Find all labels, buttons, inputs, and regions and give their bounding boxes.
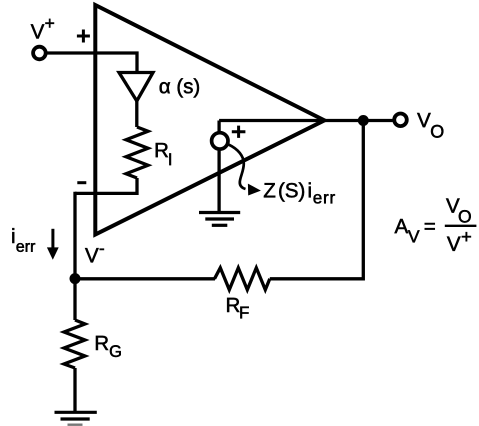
op-amp U1 bbox=[95, 5, 324, 235]
wire: current source top lead bbox=[217, 121, 220, 134]
minus marker (inverting input) bbox=[77, 181, 86, 184]
label i_err bbox=[12, 228, 14, 243]
plus marker (noninverting input) bbox=[77, 30, 90, 43]
buffer amp a(s) bbox=[119, 73, 153, 102]
output node junction dot bbox=[358, 115, 369, 126]
resistor R_G bbox=[64, 320, 85, 368]
resistor R_F bbox=[215, 268, 270, 290]
label V- bbox=[85, 248, 98, 262]
output terminal V_O bbox=[394, 114, 407, 127]
label Z(S) i_err bbox=[264, 183, 275, 197]
label R_G bbox=[96, 336, 108, 350]
wire: R_G bottom lead bbox=[73, 368, 76, 412]
label R_F bbox=[227, 298, 239, 312]
formula A_V = V_O / V+ bbox=[395, 219, 409, 233]
wire: left vertical down to node V- bbox=[73, 192, 76, 279]
current source Z(S)i_err bbox=[212, 133, 228, 149]
input terminal V+ bbox=[33, 47, 46, 60]
label alpha(s) bbox=[160, 78, 199, 97]
wire: R_F to output node bbox=[270, 121, 364, 279]
wire: R_G top lead bbox=[73, 279, 76, 320]
node V- junction dot bbox=[70, 273, 81, 284]
wire: buffer to R_I bbox=[135, 99, 138, 127]
wire: current source bottom lead bbox=[217, 149, 220, 211]
plus marker (current source) bbox=[232, 126, 246, 138]
wire: R_I bottom to inverting input bbox=[75, 178, 137, 193]
arrow i_err bbox=[51, 229, 54, 249]
label V+ bbox=[31, 24, 44, 38]
label R_I bbox=[156, 143, 168, 157]
ground (bottom) bbox=[55, 411, 97, 414]
wire: V+ input to buffer bbox=[45, 53, 137, 73]
resistor R_I bbox=[126, 127, 148, 178]
curved arrow to Z(S)i_err label bbox=[229, 145, 246, 190]
label V_O bbox=[417, 113, 430, 127]
wire: node V- to R_F bbox=[75, 277, 215, 280]
ground (current source) bbox=[199, 211, 240, 214]
wire: output horizontal (current source top to output terminal) bbox=[219, 119, 393, 122]
